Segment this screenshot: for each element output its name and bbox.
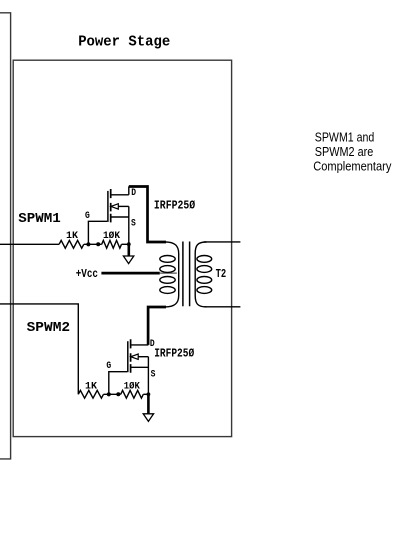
transistor Q1 source lead (111, 216, 129, 218)
wire SPWM1 input (0, 243, 59, 245)
svg-text:S: S (151, 370, 156, 381)
wire between resistors (top) (84, 243, 102, 245)
svg-text:SPWM2: SPWM2 (27, 320, 71, 336)
svg-text:IRFP25Ø: IRFP25Ø (154, 346, 194, 360)
svg-text:+Vcc: +Vcc (76, 267, 98, 281)
svg-text:IRFP25Ø: IRFP25Ø (154, 199, 195, 213)
transistor Q2 source lead (131, 366, 149, 368)
junction (top, second) (96, 242, 100, 246)
transformer T2 primary loop 4 (160, 287, 175, 294)
wire 10K to source net (top) (122, 243, 129, 245)
adjacent stage box right edge (0, 13, 11, 459)
wire secondary bottom lead (204, 306, 240, 308)
svg-text:D: D (131, 188, 136, 199)
wire Q2 source down (147, 357, 149, 394)
transformer T2 primary top lead (thick) handled above; primary outline (166, 242, 179, 307)
transformer T2 secondary outline (195, 242, 206, 307)
resistor 1K (top) (59, 240, 84, 248)
svg-text:T2: T2 (216, 267, 227, 281)
svg-text:G: G (106, 361, 111, 372)
resistor 10K (bottom) (121, 390, 144, 398)
junction Q2 source at resistor wire (147, 392, 151, 396)
transistor Q2 channel segments (130, 339, 132, 372)
wire thick Q2 source to ground (147, 393, 150, 414)
wire SPWM2 input (0, 304, 78, 394)
transistor Q1 gate bar (107, 191, 109, 222)
junction (bottom, second) (116, 392, 120, 396)
transformer T2 core (183, 242, 190, 307)
transistor Q2 body arrow (138, 356, 148, 358)
wire 10K to source net (bottom) (143, 393, 148, 395)
transformer T2 secondary loop 4 (197, 287, 212, 294)
svg-text:1K: 1K (66, 231, 78, 242)
ground (Q2 source) (143, 414, 153, 422)
transistor Q2 gate bar (127, 341, 129, 372)
svg-text:G: G (85, 211, 90, 222)
transformer T2 primary loop 1 (160, 256, 175, 263)
svg-text:Power Stage: Power Stage (78, 34, 170, 50)
transformer T2 primary loop 3 (160, 277, 175, 284)
svg-text:1ØK: 1ØK (124, 380, 140, 392)
wire thick drain net Q1 to transformer top (129, 187, 166, 243)
transformer T2 secondary loop 3 (197, 277, 212, 284)
wire +Vcc thick feed (101, 272, 159, 275)
wire +Vcc center tap (thin into winding) (160, 272, 177, 274)
transformer T2 primary loop 2 (160, 266, 175, 273)
ground (Q1 source) (123, 256, 133, 264)
svg-text:SPWM1: SPWM1 (18, 211, 61, 227)
transistor Q1 body arrow (118, 205, 129, 207)
svg-text:1ØK: 1ØK (103, 230, 120, 242)
wire secondary top lead (204, 241, 240, 243)
wire gate net Q2 (109, 372, 127, 395)
junction Q1 source at resistor wire (127, 242, 131, 246)
wire thick Q1 source to ground (128, 242, 131, 256)
wire between resistors (bottom) (104, 393, 121, 395)
junction (top, gate tap) (86, 242, 90, 246)
junction (bottom, gate tap) (107, 392, 111, 396)
transistor Q1 drain lead (111, 194, 129, 196)
svg-text:S: S (131, 219, 136, 230)
transformer T2 secondary loop 1 (197, 256, 212, 263)
transformer T2 secondary loop 2 (197, 266, 212, 273)
main power stage box (13, 60, 231, 436)
wire gate net Q1 (88, 221, 107, 244)
resistor 10K (top) (102, 240, 122, 248)
wire Q1 source down (128, 206, 130, 242)
transistor Q1 drain stub (128, 186, 130, 194)
transistor Q2 drain lead (131, 344, 149, 346)
wire thick transformer bottom to Q2 drain (148, 307, 166, 345)
transistor Q1 channel segments (110, 189, 112, 222)
svg-text:1K: 1K (85, 381, 97, 392)
resistor 1K (bottom) (78, 390, 103, 398)
